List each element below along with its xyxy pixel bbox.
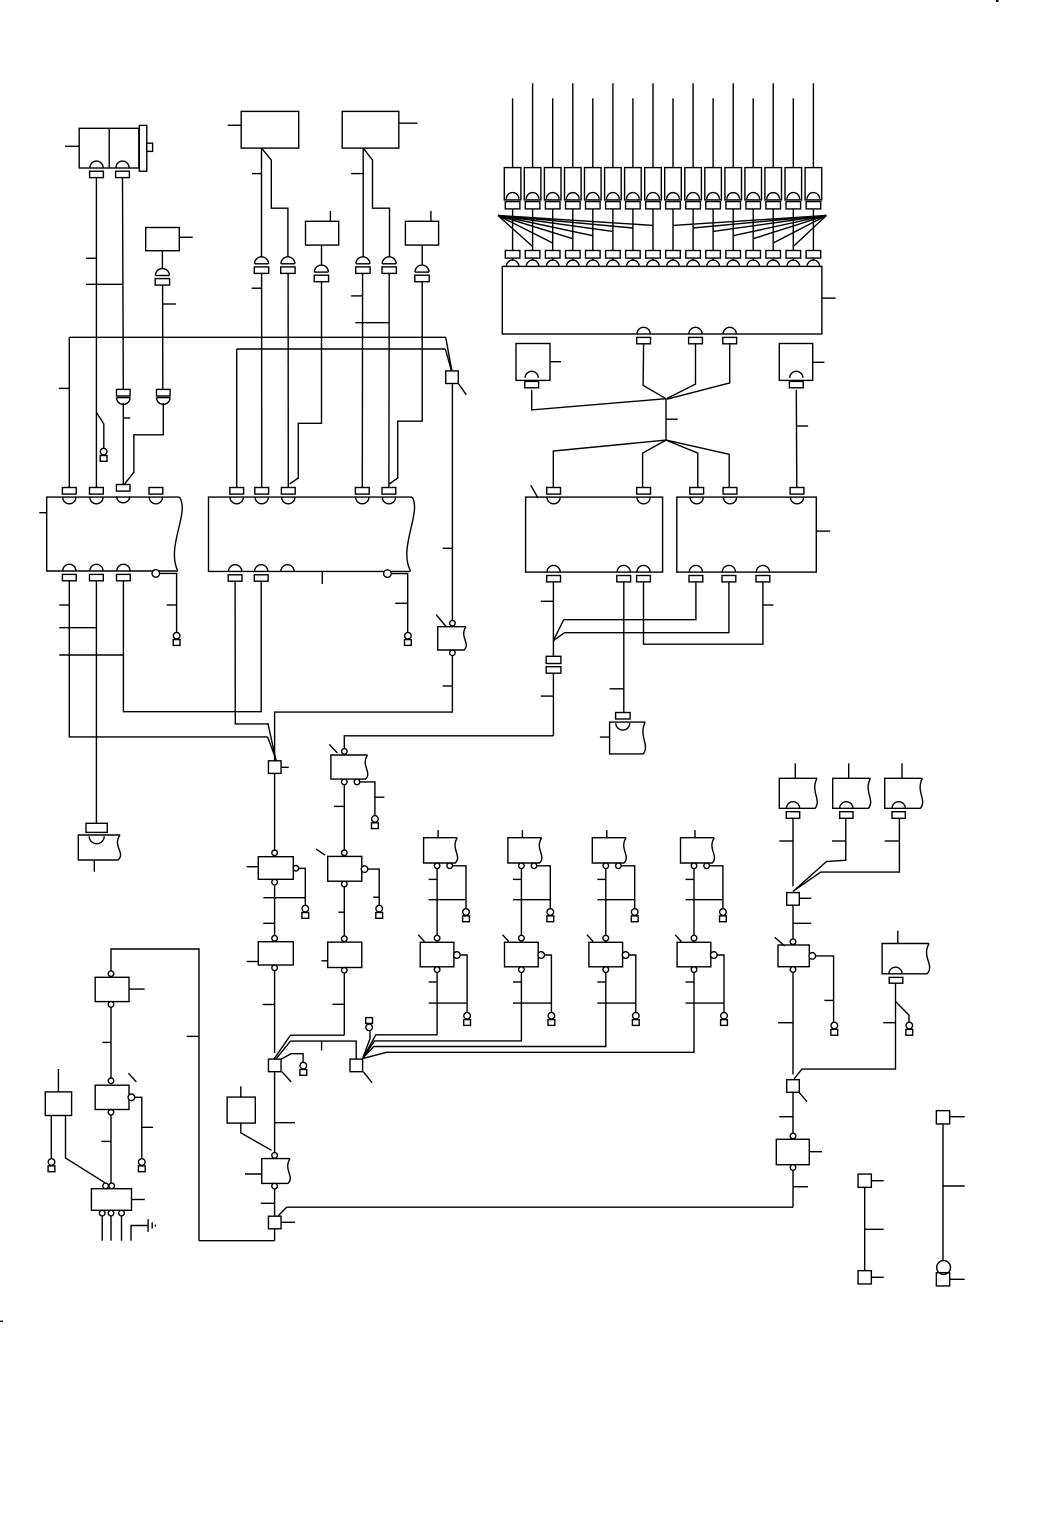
crossbar: [59, 627, 96, 629]
socket S14: [766, 251, 781, 267]
ring terminal RT-K7: [831, 1022, 838, 1035]
wire P11 to socket: [712, 209, 714, 251]
plug P1: [504, 168, 521, 209]
tick on wire: [779, 840, 793, 842]
TTB1 pin: [786, 802, 799, 819]
wire TTB3 to N2: [793, 818, 900, 891]
tick on wire: [252, 173, 262, 175]
relay box K2: [258, 942, 293, 965]
TB10 slash: [675, 935, 681, 942]
N5 branch to RT: [363, 1031, 371, 1059]
unit box U13: [45, 1092, 71, 1116]
plug P3: [544, 168, 561, 209]
TB9 right circle: [622, 952, 629, 959]
tick on wire: [778, 1022, 793, 1024]
TB9 top stub: [606, 830, 608, 838]
U8 pin: [525, 371, 539, 388]
tick on wire: [261, 1202, 275, 1204]
ring terminal TB7-RT2: [464, 1012, 471, 1025]
CN pin top U11: [723, 488, 737, 504]
wire TB8 branch1: [537, 866, 551, 909]
ring terminal RT-N5: [366, 1018, 373, 1031]
TS3 right lead: [950, 1116, 965, 1118]
ring terminal RT-K5: [376, 905, 383, 918]
TB8 slash: [503, 935, 509, 942]
U7 pin A: [637, 327, 651, 344]
tick on wire: [666, 418, 678, 420]
wire U13 to RT: [50, 1116, 52, 1159]
wire P15 to socket: [792, 209, 794, 251]
TTB2 top stub: [848, 763, 850, 778]
connector C4: [155, 269, 169, 286]
socket S8: [646, 251, 661, 267]
CN pin bottom U10: [637, 565, 651, 581]
K1 bottom circle: [272, 879, 278, 885]
node N0: [446, 371, 459, 384]
bundle diagonals: [553, 620, 564, 641]
N3 branch to RT: [281, 1054, 303, 1063]
wire P8 to socket: [652, 209, 654, 251]
wire K8 down: [792, 1170, 794, 1207]
plug P11: [705, 168, 722, 209]
U9 pin: [789, 371, 803, 388]
K8 right lead: [809, 1151, 822, 1153]
motor M1 flange: [139, 125, 147, 171]
wire N4 down: [274, 1229, 276, 1241]
ring terminal RT-TTB4: [906, 1022, 913, 1035]
SW1 bottom circles: [99, 1210, 124, 1216]
wire motor pin2 upper: [122, 177, 125, 389]
IC box U11: [677, 497, 817, 572]
wire N1 down: [274, 773, 276, 850]
K7 right circle: [809, 953, 816, 960]
plug P5: [585, 168, 602, 209]
plug P11 lead: [712, 98, 714, 167]
chain circle: [342, 850, 348, 856]
K4 right circle: [128, 1094, 135, 1101]
wire K5 branch: [368, 869, 379, 905]
plug P13: [745, 168, 762, 209]
SW1 stub wires: [102, 1216, 121, 1241]
plug P13 lead: [752, 98, 754, 167]
tick on wire: [883, 1022, 895, 1024]
junction J1-J2: [665, 399, 667, 440]
crossbar wire1-wire2: [86, 283, 123, 285]
plug P2: [524, 168, 541, 209]
plug P9 lead: [672, 98, 674, 167]
page mark left edge: [0, 1320, 3, 1322]
wire TB5 down: [274, 1189, 276, 1216]
U5 top stub: [329, 211, 331, 221]
K2 left lead: [247, 961, 259, 963]
plug P1 lead: [512, 98, 514, 167]
TB9 bottom circle: [603, 967, 609, 973]
plug P6: [605, 168, 622, 209]
wire B1-3 down: [123, 580, 261, 711]
terminal box TB5: [262, 1159, 291, 1184]
chain circle: [434, 935, 440, 941]
K5 bottom circle: [342, 881, 348, 887]
crossbar: [263, 897, 305, 899]
fan J2 to CN-C2: [643, 440, 666, 487]
unit box U5: [306, 221, 339, 245]
tick on wire: [793, 922, 811, 924]
tick on wire: [59, 604, 69, 606]
connector C5: [356, 257, 370, 274]
terminal box TB8: [508, 838, 542, 863]
ring terminal TB10-RT1: [720, 909, 727, 922]
N6 slash: [799, 1093, 807, 1102]
plug P3 lead: [552, 98, 554, 167]
U6 top stub: [430, 211, 432, 221]
wire U13 to SW1: [66, 1116, 106, 1184]
wire K1 down: [274, 885, 276, 936]
U2 right lead: [179, 236, 192, 238]
bundle diagonal into N0: [445, 337, 452, 371]
node N6: [787, 1080, 800, 1093]
wire P4 to socket: [572, 209, 574, 251]
ring terminal TB8-RT1: [547, 909, 554, 922]
wire K2 down: [274, 971, 276, 1053]
CN pin bottom B2: [228, 565, 242, 582]
wire K5 down: [343, 887, 345, 936]
tick on wire: [885, 840, 899, 842]
ring terminal RT-U13: [48, 1159, 55, 1172]
wire motor pin2 lower: [122, 403, 124, 485]
relay box TB10-K: [677, 942, 711, 967]
wire TB7 branch2: [460, 955, 467, 1012]
unit box U9: [779, 344, 812, 381]
terminal box TB3: [610, 722, 646, 754]
wire U4 main: [362, 148, 364, 257]
U8 right lead: [550, 361, 561, 363]
tick: [686, 981, 695, 983]
motor M1 shaft tab: [147, 143, 153, 151]
TB10 circles: [691, 863, 709, 869]
tick on wire: [351, 295, 362, 297]
CN pin top B2: [382, 488, 396, 504]
tick on branch: [373, 896, 379, 898]
crossbar: [355, 322, 389, 324]
terminal box TB7: [424, 838, 458, 863]
terminal box TTB2: [833, 778, 871, 808]
CN pin top B2: [255, 488, 269, 504]
chain circle: [603, 935, 609, 941]
bottom bus: [199, 1240, 275, 1242]
wire K4 down: [110, 1115, 112, 1183]
tick on branch: [824, 999, 833, 1001]
wire N3 down: [274, 1072, 276, 1153]
branch to ring terminal: [96, 412, 103, 448]
plug P8: [645, 168, 662, 209]
crossover fan right: [673, 216, 826, 247]
crossbar: [429, 1002, 468, 1004]
TS4 right lead: [950, 1278, 965, 1280]
tick: [513, 878, 522, 880]
TTB3 top stub: [901, 763, 903, 778]
tick on wire: [102, 1041, 111, 1043]
socket S11: [706, 251, 721, 267]
wire U3 main: [261, 148, 263, 257]
terminal box TTB4: [882, 944, 930, 974]
connector C3: [117, 389, 131, 404]
unit box U2: [146, 228, 180, 251]
wire U10-2 down: [623, 582, 625, 713]
wire P14 to socket: [772, 209, 774, 251]
socket S3: [545, 251, 560, 267]
tick on wire: [763, 604, 774, 606]
tick on wire: [167, 604, 177, 606]
wire U3 branch: [262, 148, 288, 257]
tick on wire: [338, 911, 344, 913]
socket S9: [666, 251, 681, 267]
wire B2-1 down: [235, 581, 268, 724]
U13 top stub: [57, 1069, 59, 1092]
plug P7: [625, 168, 642, 209]
U4 right lead: [399, 122, 418, 124]
wire U8 to J1: [532, 390, 666, 410]
ground wire: [131, 1226, 148, 1241]
tick on wire: [443, 685, 453, 687]
wire P10 to socket: [692, 209, 694, 251]
wire H7 to TB6: [344, 736, 553, 749]
wire K6 down: [343, 973, 345, 1035]
plug P2 lead: [532, 83, 534, 167]
terminal box TB1: [78, 835, 120, 860]
wire U10-1 bundle: [552, 582, 554, 657]
TS1 mid lead: [865, 1228, 884, 1230]
wire C4 mid: [162, 285, 164, 389]
wire U2 down: [161, 251, 163, 269]
wire TB8 chain2: [363, 972, 522, 1058]
socket S12: [726, 251, 741, 267]
TB7 bottom circle: [434, 967, 440, 973]
plug P14: [765, 168, 782, 209]
tick on branch: [375, 796, 385, 798]
K2 bottom circle: [272, 965, 278, 971]
TB9 slash: [587, 935, 593, 942]
wire TB10 chain1: [693, 869, 695, 936]
TS3 circle: [937, 1261, 951, 1275]
chain circle: [790, 1133, 796, 1139]
CN pin top U11: [790, 488, 804, 504]
wire U12 down: [241, 1123, 272, 1150]
wire TS1: [864, 1187, 866, 1270]
plug P16 lead: [812, 83, 814, 167]
relay box TB9-K: [589, 942, 623, 967]
TS3 mid lead: [943, 1185, 965, 1187]
TB10 bottom circle: [691, 967, 697, 973]
tick on wire: [797, 425, 809, 427]
K6 bottom circle: [342, 968, 348, 974]
terminal square TS1: [858, 1174, 871, 1187]
relay box K7: [778, 945, 809, 967]
wire col2 into N3: [274, 1035, 344, 1059]
B1 left lead: [39, 512, 46, 514]
TB2 slash: [436, 615, 446, 627]
ring terminal RT-K4: [138, 1159, 145, 1172]
terminal box TTB3: [885, 778, 923, 808]
ring terminal TB10-RT2: [721, 1012, 728, 1025]
wire TB7 chain2: [363, 972, 437, 1058]
wire H1 right: [275, 656, 453, 762]
socket S15: [786, 251, 801, 267]
unit box U8: [516, 344, 550, 381]
SW1 right lead: [132, 1199, 145, 1201]
K8 bottom circle: [790, 1165, 796, 1171]
wire P16 to socket: [812, 209, 814, 251]
relay box TB8-K: [505, 942, 539, 967]
wire TB10 branch1: [709, 866, 723, 909]
wire TB9 chain2: [362, 972, 606, 1058]
K4 bottom circle: [108, 1110, 114, 1116]
wire CP1 down: [552, 673, 554, 736]
wire TB9 branch2: [629, 955, 636, 1012]
TTB1 top stub: [794, 763, 796, 778]
crossbar: [686, 899, 723, 901]
long bus: [287, 1206, 793, 1208]
TB8 right circle: [538, 952, 545, 959]
relay box K6: [328, 942, 362, 967]
ring terminal TB9-RT2: [632, 1012, 639, 1025]
TB9 circles: [603, 863, 621, 869]
bus wire A: [69, 336, 445, 338]
unit box U6: [405, 221, 438, 245]
chain circle: [342, 749, 348, 755]
ring terminal TB7-RT1: [463, 909, 470, 922]
plug P6 lead: [612, 83, 614, 167]
PCB box B1: [47, 497, 183, 571]
K7 slash: [775, 937, 785, 946]
connector CN-T1: [86, 823, 107, 832]
wire P3 to socket: [552, 209, 554, 251]
socket S16: [806, 251, 821, 267]
node N3: [268, 1059, 281, 1072]
N5 slash: [363, 1072, 372, 1083]
motor M1 left lead: [65, 145, 79, 147]
wire H6 to U11-2: [565, 582, 729, 633]
tick on wire: [263, 1004, 275, 1006]
ring terminal RT-B: [173, 632, 180, 645]
ring terminal RT-K1: [302, 905, 309, 918]
N1 right lead: [281, 766, 289, 768]
wire U5 down: [321, 245, 323, 265]
tick on wire: [123, 417, 130, 419]
plug P15: [785, 168, 802, 209]
tick on wire: [163, 303, 176, 305]
tick on wire: [351, 173, 363, 175]
wire P12 to socket: [732, 209, 734, 251]
crossover fan left: [498, 216, 653, 247]
TB8 bottom circle: [519, 967, 525, 973]
TB10 right circle: [711, 952, 718, 959]
chain circle: [272, 850, 278, 856]
connector C6: [382, 257, 396, 274]
K6 left lead: [321, 960, 327, 962]
wire C1 to CN B2-2: [261, 273, 263, 487]
plug P7 lead: [632, 98, 634, 167]
bus wire A drop: [68, 337, 70, 488]
wire U6 down: [421, 245, 423, 265]
TB3 left lead: [600, 736, 610, 738]
relay box K1: [258, 857, 293, 880]
relay box K8: [776, 1139, 809, 1164]
tick on wire: [187, 1035, 199, 1037]
tick on wire: [59, 387, 69, 389]
tick: [429, 878, 438, 880]
wire col1 U-link: [111, 949, 199, 1241]
terminal square TS3: [936, 1111, 949, 1124]
link diagonal into N3: [276, 1041, 291, 1059]
CN pin bottom B2: [254, 565, 268, 581]
tick on wire: [832, 840, 846, 842]
wire P1 to socket: [512, 209, 514, 251]
U9 right lead: [813, 361, 825, 363]
connector C8: [415, 265, 429, 282]
N0 slash: [458, 383, 466, 394]
chain circle: [519, 935, 525, 941]
wire TB8 chain1: [520, 869, 522, 936]
TB2 circle bottom: [450, 650, 456, 656]
wire U7-B to J1: [667, 343, 696, 398]
socket S1: [505, 251, 520, 267]
wire C7 to CN B2-3: [290, 282, 322, 484]
terminal box TB10: [681, 838, 715, 863]
plug P14 lead: [772, 83, 774, 167]
TB2 circle top: [450, 620, 456, 626]
ring terminal TB9-RT1: [631, 909, 638, 922]
ground: [148, 1219, 155, 1232]
wire TS3: [942, 1124, 944, 1261]
unit box U12: [227, 1097, 255, 1123]
node N5: [350, 1059, 363, 1072]
TB5 left lead: [245, 1173, 262, 1175]
tick on wire: [779, 1116, 793, 1118]
N4 right lead: [281, 1221, 295, 1223]
tick on link: [321, 1041, 323, 1050]
page mark top right: [996, 0, 999, 2]
wire C4b to CN B1-3: [125, 403, 164, 484]
wire U4 branch: [363, 148, 389, 257]
CN pin bottom U11: [756, 565, 770, 582]
fan J2 to CN-D2: [666, 440, 729, 487]
tick on wire: [332, 1003, 344, 1005]
wire P7 to socket: [632, 209, 634, 251]
wire B1-1 down: [69, 580, 267, 737]
CN pin bottom B1: [90, 564, 104, 580]
N3 slash: [282, 1072, 291, 1082]
terminal box TB2: [438, 627, 467, 650]
terminal box TB6: [331, 755, 368, 779]
wire P5 to socket: [592, 209, 594, 251]
plug P12 lead: [732, 83, 734, 167]
TB8 circles: [519, 863, 537, 869]
node N4: [268, 1216, 281, 1229]
CN pin bottom B1: [62, 564, 76, 581]
relay box K5: [328, 856, 362, 881]
wire TB7 branch1: [453, 866, 467, 909]
K3 right lead: [129, 988, 145, 990]
wire H5 to U11-1: [564, 582, 696, 620]
K5 right circle: [361, 866, 368, 873]
tick on wire: [395, 602, 407, 604]
socket S13: [746, 251, 761, 267]
tick on wire: [86, 257, 96, 259]
TB5 bottom circle: [272, 1183, 278, 1189]
TB7 circles: [434, 863, 452, 869]
tick: [429, 981, 438, 983]
relay box TB7-K: [420, 942, 454, 967]
